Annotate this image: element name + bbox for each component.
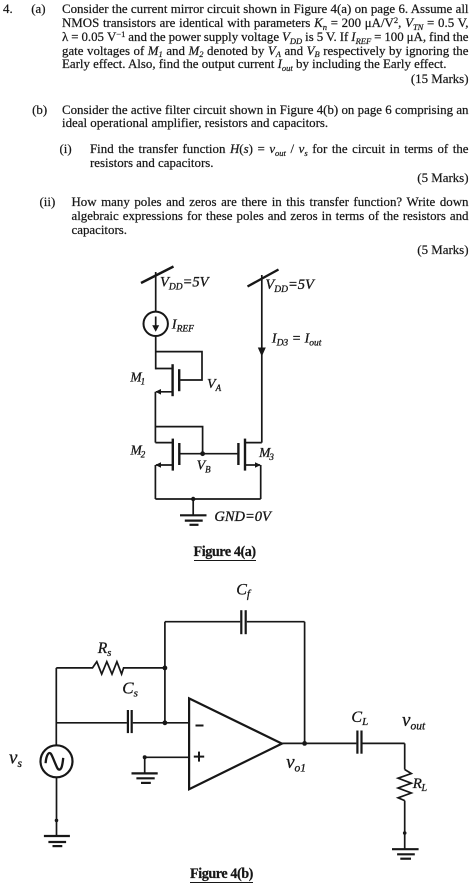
caption Figure 4(b) — [190, 867, 253, 882]
ground GND=0V — [180, 499, 207, 525]
junction dot output node — [302, 741, 307, 746]
label ID3 = Iout — [271, 332, 322, 349]
wire VDD to M3 drain with ID3 arrow — [258, 275, 266, 443]
svg-text:M1: M1 — [129, 370, 145, 387]
svg-text:M2: M2 — [130, 443, 146, 460]
item (b) label — [32, 103, 47, 117]
label VDD=5V left — [160, 275, 211, 293]
svg-text:M3: M3 — [258, 445, 274, 462]
junction dot RL ground — [403, 831, 407, 835]
wire RL to ground — [404, 801, 406, 850]
caption Figure 4(a) — [194, 545, 256, 560]
transistor M1 — [155, 364, 179, 396]
item (a) label — [31, 2, 45, 16]
svg-text:VDD=5V: VDD=5V — [160, 275, 211, 293]
svg-text:vo1: vo1 — [286, 752, 306, 774]
ground at op-amp positive input — [132, 773, 158, 783]
label vout — [402, 710, 426, 732]
label Cs — [122, 679, 138, 700]
capacitor CL — [357, 731, 404, 754]
label VB — [197, 459, 212, 475]
op-amp U1 — [189, 698, 282, 789]
label vo1 — [286, 752, 306, 774]
label VDD=5V right — [265, 277, 316, 295]
svg-text:VA: VA — [207, 377, 222, 393]
transistor M2 — [155, 439, 179, 471]
label M3 — [258, 445, 274, 462]
wire M2 source down to ground rail — [154, 465, 156, 499]
label Cf — [236, 582, 252, 601]
VDD supply symbol left — [141, 267, 174, 284]
svg-text:vs: vs — [9, 748, 22, 770]
capacitor Cf — [165, 610, 305, 634]
wire Cf left vertical — [164, 622, 166, 723]
svg-text:VDD=5V: VDD=5V — [265, 277, 316, 295]
svg-text:VB: VB — [197, 459, 212, 475]
wire op-amp output node vo1 — [282, 742, 357, 744]
junction dot Rs node — [163, 666, 168, 671]
label IREF — [171, 318, 194, 335]
junction dot non-inverting corner — [143, 755, 147, 759]
label M2 — [130, 443, 146, 460]
wire M1 source to M2 drain — [154, 392, 156, 443]
label RL — [412, 776, 428, 794]
svg-text:GND=0V: GND=0V — [214, 509, 273, 525]
junction dot vs ground — [55, 819, 59, 823]
source vs — [41, 745, 73, 777]
junction dot inverting input node — [163, 720, 168, 725]
ground below RL — [392, 849, 419, 859]
wire current source to M1 drain — [155, 336, 157, 369]
svg-text:Cf: Cf — [236, 582, 252, 601]
svg-text:Cs: Cs — [122, 679, 138, 700]
item (ii) label — [40, 195, 56, 209]
svg-text:RL: RL — [412, 776, 428, 794]
wire vs to Rs Cs — [55, 668, 57, 745]
wire M1 gate-drain loop top — [156, 352, 202, 380]
label GND=0V — [214, 509, 273, 525]
label vs — [9, 748, 22, 770]
junction dot ground tap — [191, 497, 195, 501]
wire Cf right vertical — [304, 622, 306, 744]
VDD supply symbol right — [248, 270, 279, 287]
ground rail — [155, 498, 260, 500]
capacitor Cs — [56, 710, 189, 733]
label CL — [351, 709, 368, 728]
current source IREF — [144, 312, 168, 336]
svg-text:ID3 = Iout: ID3 = Iout — [271, 332, 322, 349]
svg-text:CL: CL — [351, 709, 368, 728]
svg-text:IREF: IREF — [171, 318, 194, 335]
question number 4. — [3, 2, 13, 16]
wire M2 gate-drain loop top — [155, 427, 202, 454]
svg-text:Rs: Rs — [97, 640, 112, 659]
wire non-inverting input to ground — [145, 757, 189, 773]
wire vs to ground — [56, 777, 58, 836]
wire VDD to current source — [155, 272, 157, 312]
item (i) label — [60, 142, 72, 156]
node VB wire M2 gate to M3 gate — [203, 453, 238, 455]
wire M3 source down to ground rail — [260, 465, 262, 499]
label M1 — [129, 370, 145, 387]
resistor Rs — [56, 662, 165, 674]
ground below vs — [44, 836, 70, 846]
wire vout corner down to RL — [404, 743, 406, 769]
resistor RL — [398, 770, 411, 801]
junction dot node VB — [200, 451, 205, 456]
label VA — [207, 377, 222, 393]
svg-text:vout: vout — [402, 710, 426, 732]
transistor M3 — [238, 439, 261, 471]
label Rs — [97, 640, 112, 659]
